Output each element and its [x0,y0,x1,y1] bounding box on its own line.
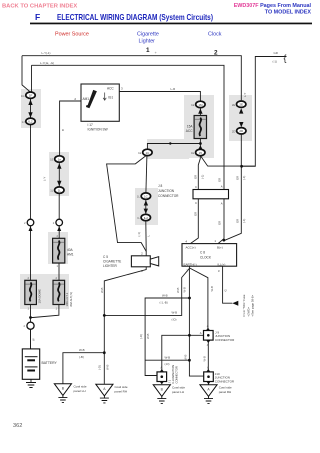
svg-text:C 8: C 8 [200,251,205,255]
wire J10 to ground [208,382,210,385]
ignition switch I17 [74,84,123,131]
wire ACC fuse top [199,108,201,116]
ground triangle G1 cowl side LH [54,384,87,396]
svg-text:W-B: W-B [202,356,206,362]
shade band connector pair col241 [229,95,252,141]
shade band connector pair col31 [21,89,41,128]
svg-text:Power Source: Power Source [55,32,89,38]
svg-text:BACK TO CHAPTER INDEX: BACK TO CHAPTER INDEX [2,4,77,10]
svg-text:Lighter: Lighter [139,39,156,45]
connector oval col145 mid [137,193,151,199]
wire fuse outputs to battery [30,305,32,349]
svg-text:(-B): (-B) [79,355,84,359]
svg-text:GR: GR [274,51,278,55]
connector circle col31 [27,219,34,226]
svg-text:I 17: I 17 [88,123,94,127]
arrow up into col241 oval [239,108,243,113]
svg-text:W-B: W-B [172,311,178,315]
svg-text:15: 15 [199,151,203,155]
svg-text:TO MODEL INDEX: TO MODEL INDEX [265,10,312,16]
svg-text:GR: GR [236,219,240,223]
svg-text:W-B: W-B [105,364,109,370]
wire clock pin3 ILL [223,266,233,303]
svg-text:W-B: W-B [100,287,104,293]
svg-text:CONNECTOR: CONNECTOR [215,338,235,342]
fuse 15A ACC [186,116,207,139]
svg-text:ACC: ACC [107,87,114,91]
svg-text:F: F [35,12,40,22]
wire W-B ground bus H5 [63,353,104,384]
svg-text:EWD307F Pages From Manual: EWD307F Pages From Manual [234,3,312,9]
wire L-Y(-1) top bus [22,56,241,100]
svg-text:A: A [200,331,202,335]
fuse 100A ALT [53,276,73,311]
wire J9 to J10 [207,340,209,372]
svg-text:CIGARETTE: CIGARETTE [103,259,121,263]
svg-text:1E: 1E [50,158,53,162]
connector oval lighter feed top [138,149,152,155]
svg-text:80A ALT(-S): 80A ALT(-S) [69,292,73,307]
svg-text:panel LH: panel LH [172,390,184,394]
svg-text:40A: 40A [67,248,74,252]
arrow up into circle col31 [29,226,33,231]
svg-text:W-B: W-B [165,355,171,359]
arrow from TAIL fuse [232,301,238,306]
ground below battery [26,383,36,388]
svg-text:(-1): (-1) [137,232,141,236]
svg-text:Cigarette: Cigarette [137,32,159,38]
svg-text:L-Y: L-Y [243,93,247,97]
chassis ground under G1 [58,395,67,402]
wire clock pin2 branchR to J9 [190,268,208,331]
svg-text:LIGHTER: LIGHTER [103,264,118,268]
junction dot clock B feed [223,239,226,242]
arrow up into oval col145 [144,200,148,205]
svg-text:panel RH: panel RH [115,390,128,394]
arrow up into oval col59 [57,163,61,169]
svg-text:L-Y(-1): L-Y(-1) [42,51,51,55]
connector oval col145 bottom [138,214,151,220]
wire ACC branch to GR junction [201,157,255,167]
wire ACC oval down to J8 [198,156,200,190]
wire battery column upper [30,98,32,118]
junction node fuse outputs [29,316,32,319]
wire J8-C to clock pin4 [190,199,198,244]
svg-text:2D: 2D [232,129,235,133]
svg-text:panel RH: panel RH [219,390,232,394]
svg-text:W-B: W-B [146,333,150,339]
svg-text:(-1): (-1) [242,219,246,223]
battery [22,349,57,379]
shade band bottom fuse row [20,274,69,309]
svg-text:A: A [161,365,163,369]
svg-text:GR: GR [194,175,198,179]
wire AM1 column [60,101,81,156]
wire GR to brace [242,57,287,167]
connector oval 1L col59 bottom [50,187,64,193]
svg-text:(-1,-B): (-1,-B) [160,301,168,305]
shade band connector pair col59 [49,152,69,196]
svg-text:AM1: AM1 [67,253,74,257]
svg-text:W-B: W-B [184,354,188,360]
svg-text:GR: GR [194,212,198,216]
svg-text:JUNCTION: JUNCTION [158,189,175,193]
svg-text:A: A [207,365,209,369]
from TAIL fuse text [242,294,254,316]
svg-text:C 5: C 5 [103,255,108,259]
svg-text:ELECTRICAL WIRING DIAGRAM (Sys: ELECTRICAL WIRING DIAGRAM (System Circui… [57,12,213,22]
svg-text:GR: GR [218,178,222,182]
connector oval col241 bottom [232,128,246,134]
svg-text:L-R: L-R [171,87,176,91]
svg-text:(-D): (-D) [165,362,170,366]
svg-text:1E: 1E [191,103,194,107]
ground triangle G4 cowl side RH [200,385,232,397]
svg-text:C: C [195,201,197,205]
svg-text:(-1): (-1) [201,175,205,179]
wire col241 down [224,134,241,240]
svg-text:IGNITION SW: IGNITION SW [88,127,108,131]
svg-text:ILLUMINATION: ILLUMINATION [171,365,175,384]
svg-text:{: { [284,53,287,63]
wire clock earth VE main [189,267,203,377]
svg-text:ILL(+): ILL(+) [218,262,226,266]
arrow up into ACC oval [198,109,202,114]
connector oval 1E ACC top [191,101,205,107]
svg-text:B(+): B(+) [217,246,223,250]
svg-text:(-1): (-1) [273,60,278,64]
shade band AM1 fuse [48,232,68,264]
svg-text:BATTERY: BATTERY [42,361,58,365]
wire ACC fuse bottom to oval [199,139,201,150]
cigarette lighter C5 [103,252,159,273]
connector oval col241 top [232,101,246,107]
arrow up into circle col59 [57,226,61,231]
svg-text:1L: 1L [58,189,62,193]
wire lighter feed via connectors col145 [146,156,147,193]
svg-text:J 8: J 8 [158,184,162,188]
junction dot fuse output [199,142,202,145]
ground triangle G3 cowl side LH [153,385,185,397]
svg-text:L-Y(-E, -G): L-Y(-E, -G) [40,61,54,65]
svg-text:W-B: W-B [210,286,214,292]
junction connector J9 [200,324,235,347]
svg-text:L-Y: L-Y [43,177,47,181]
svg-text:A: A [207,343,209,347]
chassis ground under G4 [204,396,213,403]
junction dots ground net [103,314,106,317]
wire battery to ground [30,379,32,382]
svg-text:CONNECTOR: CONNECTOR [215,380,235,384]
arrow up into oval [28,100,32,106]
shade band left of ACC fuse [147,139,189,159]
svg-text:10A DOME: 10A DOME [38,289,42,304]
svg-text:J 1: J 1 [167,379,171,383]
svg-text:W-B: W-B [162,294,168,298]
junction connector J8 [158,184,229,205]
wire branch to lighter H_f [147,144,200,150]
svg-text:ACC(+): ACC(+) [186,246,196,250]
arrow down into lower oval [28,112,32,118]
svg-text:(-D): (-D) [98,365,102,370]
connector oval IL2 col31 bottom [22,118,36,124]
svg-text:IL2: IL2 [28,120,33,124]
svg-text:B: B [61,129,65,131]
svg-text:(-D): (-D) [172,317,177,321]
arrow down into col241 lower oval [239,122,243,127]
svg-text:1: 1 [146,47,150,54]
wire H4 J9 to LH jbox [162,335,205,372]
arrow down into lower oval col59 [57,181,61,187]
svg-text:IL2: IL2 [144,216,149,220]
wire lighter ground diagonal [104,267,146,384]
svg-text:(-1): (-1) [242,176,246,180]
svg-text:(-D): (-D) [139,334,143,339]
chassis ground under G2 [100,396,109,403]
svg-text:1F: 1F [29,94,33,98]
connector oval 1G col31 top [21,92,35,98]
svg-text:W-B: W-B [79,348,85,352]
wire H3 [145,359,189,361]
wire lighter feed loop [107,156,147,256]
svg-text:GR: GR [218,221,222,225]
svg-text:AM1: AM1 [83,97,90,101]
svg-text:100A ALT-1: 100A ALT-1 [65,292,69,306]
junction dot GR merge [240,165,243,168]
svg-text:A: A [207,324,209,328]
dot on H_f [169,142,171,144]
svg-text:2E: 2E [232,103,235,107]
svg-text:A: A [221,201,223,205]
svg-text:ACC: ACC [186,129,193,133]
svg-text:W: W [32,338,36,341]
junction connector LH (rotated label) [157,365,179,385]
svg-text:W-B: W-B [176,287,180,293]
wire H1 VE to col145 down to LH jbox [145,298,189,376]
svg-text:1L: 1L [50,189,53,193]
wire H2 clock earth to VL [104,268,189,315]
junction connector J10 [204,365,235,384]
svg-text:2E: 2E [239,103,243,107]
svg-text:1M: 1M [198,103,203,107]
ground triangle G2 cowl side RH [96,384,128,396]
svg-text:IG1: IG1 [108,95,113,99]
shade band ACC fuse column [184,95,214,158]
svg-text:1E: 1E [138,151,141,155]
arrow down into ACC lower oval [198,145,202,149]
svg-text:A: A [221,184,223,188]
svg-text:CLOCK: CLOCK [200,255,212,259]
svg-text:<See page 58-8>: <See page 58-8> [251,295,255,317]
svg-text:EARTH(-): EARTH(-) [184,262,197,266]
svg-text:1E: 1E [191,151,194,155]
svg-text:1e: 1e [58,157,62,161]
svg-text:1G: 1G [21,94,25,98]
svg-text:GR: GR [236,176,240,180]
svg-text:C: C [195,185,197,189]
svg-text:Clock: Clock [208,32,222,38]
arrow down into lower oval col145 [144,209,148,214]
wire col224 to clock pin1 [218,199,224,244]
title underline [30,23,312,25]
connector circle col59 [56,219,63,226]
fuse 40A AM1 [53,234,74,268]
svg-text:1L: 1L [137,195,140,199]
svg-text:CONNECTOR: CONNECTOR [175,366,179,383]
svg-text:362: 362 [13,423,22,429]
svg-text:panel LH: panel LH [74,389,86,393]
connector oval 1e col59 top [50,156,64,162]
svg-text:15A: 15A [187,124,194,128]
connector circle battery feed [27,322,34,329]
svg-text:CONNECTOR: CONNECTOR [158,194,179,198]
wire L-Y(-E,-G) second bus [32,65,225,189]
shade band connector pair col145 [135,188,158,225]
wire ACC from ignition switch [119,92,200,102]
svg-text:W-B: W-B [182,287,186,293]
clock C8 [182,239,237,273]
fuse 10A DOME [25,276,42,311]
chassis ground under G3 [157,396,166,403]
connector oval ACC bottom [191,149,205,155]
svg-text:G: G [223,289,227,291]
